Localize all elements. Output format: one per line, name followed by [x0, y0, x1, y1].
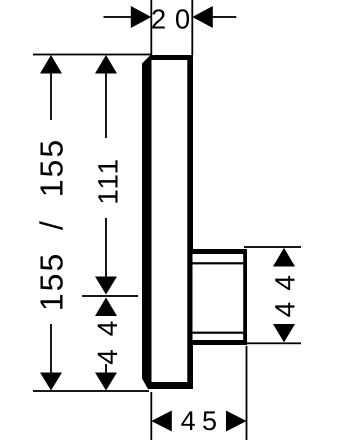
svg-text:4 4: 4 4	[92, 318, 123, 365]
svg-text:2 0: 2 0	[151, 3, 191, 34]
svg-text:4 5: 4 5	[181, 406, 217, 436]
svg-text:155 / 155: 155 / 155	[34, 138, 70, 311]
svg-text:111: 111	[92, 157, 123, 204]
svg-text:4 4: 4 4	[270, 273, 301, 317]
